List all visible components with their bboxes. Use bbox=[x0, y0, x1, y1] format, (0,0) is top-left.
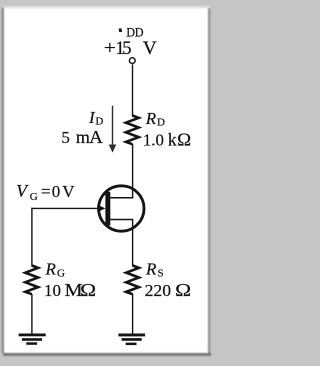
svg-text:R: R bbox=[45, 259, 57, 278]
transistor Q1 source stub bbox=[110, 219, 133, 221]
resistor RG bbox=[25, 266, 38, 295]
svg-text:Ω: Ω bbox=[175, 280, 191, 300]
gate wire bbox=[31, 207, 100, 209]
resistor RS bbox=[126, 266, 139, 295]
svg-text:m: m bbox=[76, 127, 90, 147]
svg-text:A: A bbox=[89, 127, 103, 147]
current arrow ID bbox=[112, 106, 114, 146]
svg-text:=: = bbox=[41, 182, 51, 201]
svg-text:D: D bbox=[157, 117, 165, 129]
transistor Q1 gate arrowhead bbox=[97, 205, 105, 212]
resistor RD bbox=[126, 116, 139, 145]
ground right bbox=[118, 334, 145, 337]
svg-text:10: 10 bbox=[44, 281, 61, 300]
svg-text:R: R bbox=[145, 259, 157, 278]
svg-text:S: S bbox=[158, 267, 164, 279]
page top soft transition bbox=[4, 5, 211, 10]
svg-text:+: + bbox=[104, 39, 116, 59]
page border shadows bbox=[3, 8, 211, 354]
svg-text:5: 5 bbox=[122, 39, 131, 59]
wire RS to ground bbox=[132, 294, 134, 334]
svg-text:D: D bbox=[95, 116, 103, 128]
ground left bbox=[19, 334, 46, 337]
svg-text:R: R bbox=[145, 109, 157, 128]
transistor Q1 drain stub bbox=[110, 197, 133, 199]
white page bbox=[4, 7, 211, 354]
terminal circle VDD bbox=[129, 58, 135, 64]
svg-text:k: k bbox=[168, 130, 177, 150]
wire RG to ground bbox=[31, 294, 33, 334]
node VDD label (cut off top): V remnant tick bbox=[119, 28, 123, 32]
wire VDD to RD bbox=[132, 64, 134, 116]
svg-text:Ω: Ω bbox=[80, 280, 96, 300]
svg-text:G: G bbox=[57, 267, 65, 279]
svg-text:0: 0 bbox=[52, 182, 61, 201]
svg-text:DD: DD bbox=[126, 25, 144, 39]
wire RD to drain bbox=[132, 144, 134, 199]
outer gray background bbox=[0, 0, 219, 366]
wire source to RS bbox=[132, 220, 134, 267]
transistor Q1 circle bbox=[99, 186, 144, 231]
svg-text:G: G bbox=[30, 191, 38, 203]
svg-text:1.0: 1.0 bbox=[143, 131, 164, 150]
svg-text:220: 220 bbox=[145, 281, 172, 300]
svg-text:Ω: Ω bbox=[177, 130, 191, 150]
svg-text:V: V bbox=[143, 39, 158, 59]
transistor Q1 channel bar bbox=[105, 192, 110, 226]
left vertical wire bbox=[31, 208, 33, 266]
svg-text:5: 5 bbox=[61, 128, 70, 147]
svg-text:V: V bbox=[62, 182, 75, 201]
